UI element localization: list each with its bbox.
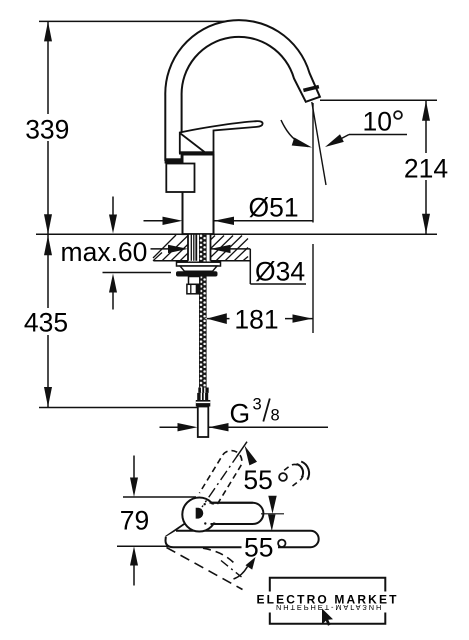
svg-text:10: 10 [363, 107, 392, 137]
upper 55° arc arrow [237, 442, 247, 457]
dim Ø34 leader [151, 248, 171, 250]
mounting nut (black) [176, 271, 218, 276]
vertical extension line from spout outlet [312, 103, 314, 223]
extension line: spout outlet level [320, 99, 437, 101]
mounting flange [177, 262, 221, 266]
lever wedge line [181, 134, 205, 153]
lower 55° arc arrow [246, 557, 256, 570]
mouse cursor [322, 609, 333, 626]
extension line: top of spout [39, 20, 242, 22]
dim max.60 arrows [112, 197, 114, 217]
top view spout wedge line [166, 517, 194, 537]
braided hose [199, 235, 207, 388]
10° leader and arrow [349, 134, 407, 136]
deck hatching [153, 235, 248, 261]
hose nut (black) [196, 400, 211, 407]
svg-text:55: 55 [244, 533, 273, 563]
cartridge marker [196, 508, 204, 519]
svg-text:339: 339 [25, 115, 69, 145]
hose lower collar [198, 388, 208, 393]
logo bracket [270, 578, 386, 592]
dash-dot centerline of rotated handle [202, 454, 239, 507]
svg-text:435: 435 [24, 308, 68, 338]
dashed rotated spout tip (upper right) [282, 464, 303, 486]
riser junction black band [165, 158, 183, 163]
svg-text:214: 214 [404, 154, 448, 184]
faucet body column [183, 155, 214, 235]
ext line top of base circle [123, 496, 196, 498]
dim 79 arrows [133, 456, 135, 479]
cone washer [180, 266, 217, 271]
lever handle [180, 121, 263, 152]
lower 55° text [242, 535, 279, 559]
10° slanted outlet line [312, 102, 326, 185]
svg-text:Ø51: Ø51 [249, 193, 299, 223]
svg-text:G: G [230, 399, 251, 429]
shank fitting lower [187, 284, 200, 294]
svg-text:max.60: max.60 [61, 237, 148, 267]
dim 214 line [425, 100, 427, 234]
svg-text:79: 79 [120, 506, 149, 536]
logo small flipped text [276, 603, 383, 612]
body top band [179, 151, 214, 154]
dash-dot centerline of rotated spout [221, 561, 242, 578]
svg-text:8: 8 [271, 407, 280, 425]
dim 339 line [47, 21, 49, 234]
solid arcs at rotated spout tip [297, 464, 304, 478]
shank fitting upper [189, 277, 200, 285]
dim G3/8 pipe arrows [160, 426, 180, 428]
extension line: deck/counter level [36, 233, 437, 235]
degree circle on spout bottom line [278, 540, 285, 547]
svg-text:3: 3 [253, 396, 262, 414]
faucet spout tube (gooseneck) [165, 20, 320, 160]
side box [166, 164, 194, 193]
ext line bottom of spout [117, 545, 180, 547]
dashed rotated handle (55° up) [199, 451, 241, 505]
spray angle arc arrow [281, 120, 308, 147]
top view spout outline [166, 531, 319, 547]
svg-text:Ø34: Ø34 [255, 257, 305, 287]
dim 435 line [47, 234, 49, 407]
dashed rotated spout (55° down) [167, 548, 243, 590]
top view handle stadium [210, 503, 264, 524]
top view base circle [182, 498, 216, 532]
svg-text:55: 55 [243, 465, 272, 495]
dim 181 [205, 312, 229, 326]
handle white join cover [206, 505, 218, 523]
bowtie arrows at handle centerline [261, 513, 284, 515]
deck bottom line [154, 260, 251, 262]
supply pipe [198, 407, 209, 438]
extension line: bottom of supply pipe (435) [39, 407, 198, 409]
svg-text:ИНТЕРНЕТ-МАГАЗИН: ИНТЕРНЕТ-МАГАЗИН [276, 603, 383, 612]
svg-text:181: 181 [234, 305, 278, 335]
dim Ø51 arrows [144, 220, 165, 222]
spout aerator band [303, 87, 319, 91]
shank through deck [188, 235, 211, 262]
dim Ø34 label box [251, 250, 310, 283]
